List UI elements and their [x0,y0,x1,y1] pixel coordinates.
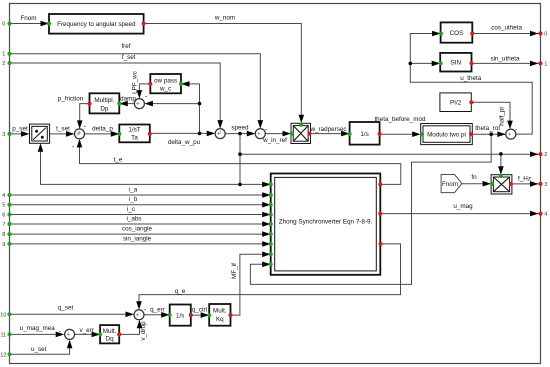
svg-text:w_nom: w_nom [214,15,235,22]
svg-text:Dq: Dq [106,336,115,343]
svg-text:1: 1 [544,61,547,67]
svg-text:4: 4 [544,212,547,218]
svg-text:q_ctrl: q_ctrl [192,306,207,313]
svg-text:damp: damp [120,96,136,103]
svg-text:Fnom: Fnom [20,15,36,22]
svg-text:t_set: t_set [56,125,70,132]
svg-text:w_c: w_c [159,86,171,93]
svg-text:sin_iangle: sin_iangle [123,235,152,242]
svg-text:p_set: p_set [12,125,28,132]
svg-text:u_theta: u_theta [460,75,482,82]
svg-text:cos_utheta: cos_utheta [491,25,522,32]
svg-text:SIN: SIN [451,60,462,67]
svg-text:Mult.: Mult. [103,328,117,335]
svg-text:f_set: f_set [122,54,136,61]
svg-text:delta_p: delta_p [92,126,113,133]
svg-text:Zhong Synchronverter Eqn 7-8-9: Zhong Synchronverter Eqn 7-8-9. [279,218,373,225]
svg-text:Multipl.: Multipl. [94,97,114,104]
svg-text:i_abs: i_abs [126,216,141,223]
svg-text:9: 9 [2,242,5,248]
svg-text:6: 6 [2,213,5,219]
svg-text:q_set: q_set [58,304,74,311]
svg-text:0: 0 [2,22,5,28]
svg-text:LPF_wc: LPF_wc [132,71,139,94]
svg-text:u_mag: u_mag [453,203,473,210]
svg-text:3: 3 [544,182,547,188]
svg-text:Ta: Ta [131,135,138,142]
svg-text:Modulo two pi: Modulo two pi [427,131,466,138]
svg-text:w_radpersec: w_radpersec [309,126,346,133]
svg-text:PI/2: PI/2 [450,100,462,107]
svg-text:11: 11 [0,332,6,338]
svg-text:MF_if: MF_if [231,263,238,279]
svg-text:COS: COS [450,30,464,37]
svg-text:fref: fref [121,43,130,50]
svg-text:Dp: Dp [100,105,109,112]
svg-text:10: 10 [0,312,6,318]
svg-text:0: 0 [544,32,547,38]
svg-text:4: 4 [2,193,5,199]
svg-text:q_err: q_err [150,306,165,313]
svg-text:1/sT: 1/sT [128,127,140,134]
svg-text:cos_iangle: cos_iangle [122,226,153,233]
svg-text:ow pass: ow pass [154,78,177,85]
svg-text:1/s: 1/s [176,313,184,320]
svg-text:u_set: u_set [31,346,47,353]
svg-text:i_b: i_b [129,196,138,203]
svg-text:v_err: v_err [80,327,94,334]
svg-text:theta_before_mod: theta_before_mod [374,116,426,123]
svg-text:speed: speed [231,125,249,132]
svg-text:Mult.: Mult. [213,308,227,315]
svg-text:f_Hz: f_Hz [518,176,531,183]
svg-text:2: 2 [2,61,5,67]
svg-text:Fnom: Fnom [442,181,458,188]
svg-text:2: 2 [544,152,547,158]
svg-text:12: 12 [0,352,6,358]
svg-text:half_pi: half_pi [499,107,506,126]
svg-text:1/s: 1/s [360,131,368,138]
svg-text:q_e: q_e [175,288,186,295]
svg-text:delta_w_pu: delta_w_pu [168,139,201,146]
svg-text:w_in_ref: w_in_ref [262,137,287,144]
svg-text:3: 3 [2,132,5,138]
svg-text:fn: fn [471,174,477,181]
svg-text:v_drop: v_drop [140,321,147,341]
svg-text:u_mag_mea: u_mag_mea [20,325,56,332]
svg-text:t_e: t_e [114,157,123,164]
svg-text:i_c: i_c [127,206,135,213]
svg-text:theta_rot: theta_rot [475,125,500,132]
svg-text:5: 5 [2,203,5,209]
svg-text:Kq: Kq [216,316,224,323]
svg-text:1: 1 [2,52,5,58]
svg-text:i_a: i_a [129,187,138,194]
svg-text:7: 7 [2,222,5,228]
svg-text:sin_utheta: sin_utheta [490,55,520,62]
svg-text:p_friction: p_friction [58,96,84,103]
svg-text:8: 8 [2,232,5,238]
svg-text:Frequency to angular speed: Frequency to angular speed [57,21,136,28]
